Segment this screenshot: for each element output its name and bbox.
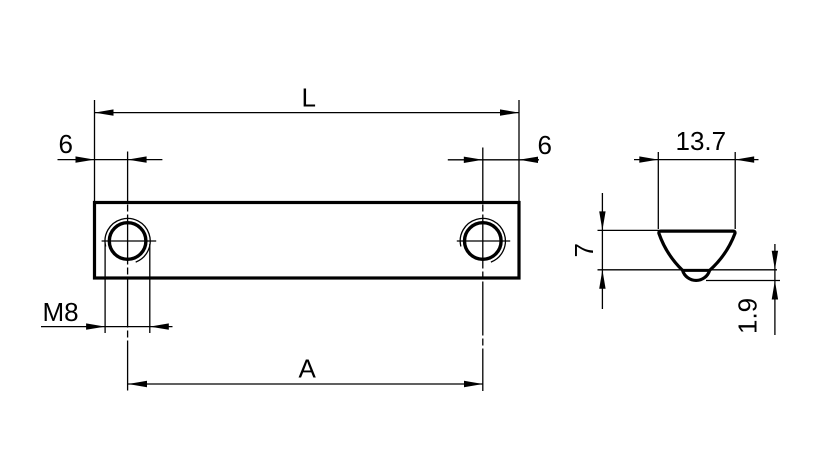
hole right vertical centerline / extension to dims	[482, 148, 484, 392]
hole right M8 thread arc	[460, 218, 505, 262]
dimension A label	[299, 354, 317, 384]
side view profile outline	[659, 231, 735, 280]
dimension L extension line right	[518, 100, 520, 201]
dimension 7 label	[569, 243, 599, 257]
dimension L extension line left	[94, 100, 96, 201]
dimension 6 right line	[448, 159, 539, 161]
dimension 6 left arrowhead inner	[128, 156, 147, 162]
hole left horizontal centerline	[102, 240, 157, 242]
svg-text:13.7: 13.7	[676, 126, 727, 156]
dimension 7 arrowhead top	[599, 211, 605, 230]
M8 thread extension line right	[149, 244, 151, 333]
M8 label	[43, 297, 79, 327]
dimension 7 line	[601, 193, 603, 309]
dimension L line	[95, 112, 520, 114]
dimension 13.7 label	[676, 126, 727, 156]
dimension 1.9 arrowhead bottom	[772, 281, 778, 300]
dimension A line	[128, 383, 483, 385]
M8 thread extension line left	[104, 244, 106, 334]
svg-text:6: 6	[59, 129, 73, 159]
dimension 6 right arrowhead inner	[464, 157, 483, 163]
dimension 7 arrowhead bottom	[599, 270, 605, 289]
dimension L label	[302, 83, 316, 113]
svg-text:M8: M8	[43, 297, 79, 327]
front view body outline	[95, 203, 520, 279]
dimension M8 line with leader	[41, 326, 173, 328]
dimension 1.9 line	[774, 244, 776, 335]
svg-text:L: L	[302, 83, 316, 113]
dimension 6 left arrowhead outer	[76, 156, 95, 162]
dimension 13.7 line	[634, 159, 759, 161]
dimension 7 reference line top	[598, 229, 660, 231]
hole left M8 thread arc	[105, 218, 150, 262]
dimension 6 left label	[59, 129, 73, 159]
dimension 7 reference line bottom	[598, 269, 778, 271]
svg-text:7: 7	[569, 243, 599, 257]
dimension L arrowhead right	[500, 109, 519, 115]
svg-text:A: A	[299, 354, 317, 384]
hole left vertical centerline / extension to dims	[127, 152, 129, 392]
dimension M8 arrowhead right	[150, 323, 169, 329]
dimension 6 right label	[538, 130, 552, 160]
dimension 1.9 arrowhead top	[772, 251, 778, 270]
hole left M8 tap drill circle	[109, 223, 146, 260]
dimension 13.7 extension line right	[734, 152, 736, 229]
hole right M8 tap drill circle	[465, 223, 502, 260]
svg-text:1.9: 1.9	[733, 298, 763, 334]
dimension M8 arrowhead left	[86, 323, 105, 329]
dimension 6 left line	[58, 159, 163, 161]
dimension A arrowhead left	[128, 381, 147, 387]
dimension L arrowhead left	[95, 109, 114, 115]
dimension 1.9 label	[733, 298, 763, 334]
side view profile bottom chord	[683, 269, 710, 272]
dimension 13.7 arrowhead left	[639, 156, 658, 162]
dimension 1.9 reference line nub bottom	[706, 280, 780, 282]
dimension 6 right arrowhead outer	[519, 157, 538, 163]
svg-text:6: 6	[538, 130, 552, 160]
dimension 13.7 arrowhead right	[735, 156, 754, 162]
dimension 13.7 extension line left	[657, 152, 659, 229]
dimension A arrowhead right	[464, 381, 483, 387]
hole right horizontal centerline	[457, 240, 510, 242]
